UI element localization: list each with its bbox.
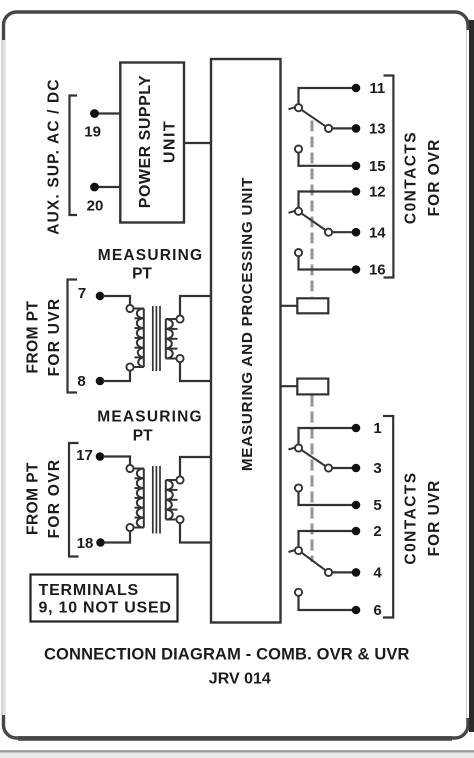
terminal 20 [87, 183, 104, 215]
transformer T2 secondary winding [166, 476, 184, 523]
switch S4 NC contact [325, 569, 352, 576]
switch S3 arm [302, 450, 326, 466]
svg-text:TERMINALS: TERMINALS [39, 582, 140, 599]
switch S1 wire in from 11 [299, 88, 353, 104]
terminal 14 [352, 225, 387, 242]
terminal 13 [352, 120, 386, 137]
measuring and processing unit U2 box [211, 59, 281, 623]
transformer T2 core [153, 466, 160, 534]
svg-text:14: 14 [369, 225, 386, 242]
transformer T2 primary winding [126, 465, 143, 531]
switch S2 wire in from 12 [299, 192, 353, 208]
svg-text:6: 6 [373, 602, 381, 619]
terminal 15 [352, 158, 386, 175]
svg-text:PT: PT [132, 266, 152, 283]
svg-text:12: 12 [369, 184, 386, 201]
wire T2 secondary bottom to unit [180, 523, 211, 542]
switch S2 NO contact [295, 249, 352, 270]
wire T1 secondary top to unit [180, 296, 211, 315]
switch S4 NO contact [295, 589, 352, 610]
transformer T1 core [153, 306, 160, 371]
switch S1 pivot [289, 104, 303, 111]
svg-text:13: 13 [369, 120, 386, 137]
svg-text:FOR UVR: FOR UVR [46, 298, 63, 377]
svg-text:MEASURING: MEASURING [98, 247, 204, 264]
measuring PT label 2 [97, 408, 203, 444]
svg-text:FROM PT: FROM PT [24, 300, 41, 373]
terminal 7 [78, 285, 104, 302]
switch S2 pivot [289, 208, 303, 215]
switch S3 wire in from 1 [299, 428, 353, 444]
bracket PT OVR [69, 443, 79, 557]
transformer T1 secondary winding [166, 315, 184, 362]
switch S2 arm [302, 213, 326, 230]
switch S3 NO contact [295, 484, 352, 505]
switch S1 NO contact [295, 145, 352, 165]
terminal 8 [77, 373, 104, 390]
svg-text:17: 17 [76, 447, 93, 464]
aux supply bracket [70, 96, 78, 216]
wire terminal 17 to T2 primary [103, 457, 130, 465]
from PT for UVR label [24, 298, 63, 377]
caption line [44, 646, 410, 664]
svg-text:2: 2 [373, 523, 381, 540]
terminal 4 [352, 564, 383, 581]
terminal 12 [352, 184, 386, 201]
svg-text:POWER SUPPLY: POWER SUPPLY [137, 75, 154, 208]
svg-text:AUX. SUP. AC / DC: AUX. SUP. AC / DC [45, 78, 62, 235]
svg-text:8: 8 [77, 373, 85, 390]
wire terminal 18 to T2 primary [104, 531, 131, 542]
power supply unit U1 box [120, 63, 184, 223]
svg-text:7: 7 [78, 285, 86, 302]
coil K2 (UVR) [297, 379, 328, 395]
terminal 6 [352, 602, 382, 619]
svg-text:5: 5 [373, 497, 381, 514]
svg-text:FOR OVR: FOR OVR [46, 459, 63, 539]
svg-text:20: 20 [87, 198, 104, 215]
switch S1 NC contact [325, 125, 352, 132]
svg-text:19: 19 [84, 124, 101, 141]
switch S3 pivot [289, 444, 303, 451]
wire unit to coil K2 [281, 385, 298, 387]
model number [209, 671, 271, 688]
svg-text:C0NTACTS: C0NTACTS [402, 471, 419, 564]
wire unit to coil K1 [281, 305, 298, 307]
terminal 19 [84, 109, 101, 140]
measuring PT label 1 [98, 247, 204, 283]
terminal 3 [352, 460, 382, 477]
svg-text:4: 4 [373, 564, 382, 581]
svg-text:PT: PT [133, 428, 153, 445]
terminal 2 [352, 523, 382, 540]
bracket PT UVR [68, 280, 78, 393]
wire terminal20 to PSU [97, 186, 121, 188]
svg-text:FROM PT: FROM PT [24, 462, 41, 535]
svg-text:MEASURING: MEASURING [97, 408, 203, 425]
wire T2 secondary top to unit [180, 457, 211, 476]
contacts for OVR bracket [384, 76, 394, 278]
svg-text:11: 11 [369, 80, 385, 97]
terminal 17 [76, 447, 104, 464]
dashed linkage OVR [311, 121, 314, 298]
transformer T1 primary winding [126, 305, 143, 371]
svg-text:MEASURING AND PR0CESSING UNIT: MEASURING AND PR0CESSING UNIT [239, 177, 256, 471]
from PT for OVR label [24, 459, 63, 539]
svg-text:FOR UVR: FOR UVR [426, 480, 443, 557]
contacts for UVR label [402, 471, 443, 564]
wire T1 secondary bottom to unit [180, 362, 211, 381]
switch S4 wire in from 2 [299, 531, 353, 547]
switch S4 pivot [289, 547, 303, 554]
svg-text:18: 18 [77, 535, 94, 552]
terminal 11 [352, 80, 386, 97]
svg-text:16: 16 [369, 262, 386, 279]
svg-text:UNIT: UNIT [162, 120, 179, 163]
contacts for UVR bracket [383, 416, 393, 618]
svg-text:1: 1 [373, 420, 381, 437]
terminal 16 [352, 262, 386, 279]
svg-text:CONNECTION DIAGRAM - COMB. OVR: CONNECTION DIAGRAM - COMB. OVR & UVR [44, 646, 410, 664]
terminal 1 [352, 420, 382, 437]
svg-text:3: 3 [373, 460, 381, 477]
terminals not used box [31, 575, 178, 622]
aux supply label [45, 78, 62, 235]
switch S3 NC contact [325, 464, 352, 471]
switch S1 arm [302, 110, 326, 126]
switch S2 NC contact [325, 229, 352, 236]
wire terminal19 to PSU [97, 112, 121, 114]
dashed linkage UVR [311, 396, 314, 563]
wire PSU to processing unit [184, 142, 211, 144]
svg-text:9, 10 NOT USED: 9, 10 NOT USED [39, 600, 172, 617]
bottom page strip [0, 751, 474, 758]
contacts for OVR label [402, 131, 443, 224]
svg-text:15: 15 [369, 158, 386, 175]
svg-text:JRV 014: JRV 014 [209, 671, 271, 688]
terminal 18 [77, 535, 105, 552]
terminal 5 [352, 497, 382, 514]
svg-text:C0NTACTS: C0NTACTS [402, 131, 419, 224]
wire terminal 7 to T1 primary [103, 296, 130, 305]
wire terminal 8 to T1 primary [103, 371, 130, 381]
coil K1 (OVR) [297, 298, 328, 313]
svg-text:FOR OVR: FOR OVR [426, 139, 443, 217]
switch S4 arm [302, 553, 326, 571]
